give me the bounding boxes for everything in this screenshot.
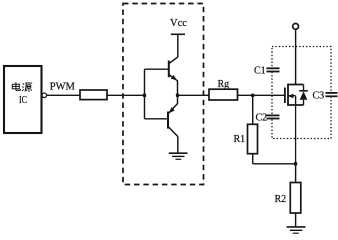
svg-text:R1: R1 [234, 134, 246, 145]
svg-text:Rg: Rg [218, 79, 230, 90]
svg-text:R2: R2 [275, 194, 287, 205]
svg-text:C1: C1 [254, 66, 266, 77]
svg-text:IC: IC [19, 95, 27, 106]
svg-text:PWM: PWM [50, 82, 76, 93]
svg-text:Vcc: Vcc [170, 18, 187, 29]
svg-text:C3: C3 [313, 91, 325, 102]
svg-text:C2: C2 [256, 113, 268, 124]
